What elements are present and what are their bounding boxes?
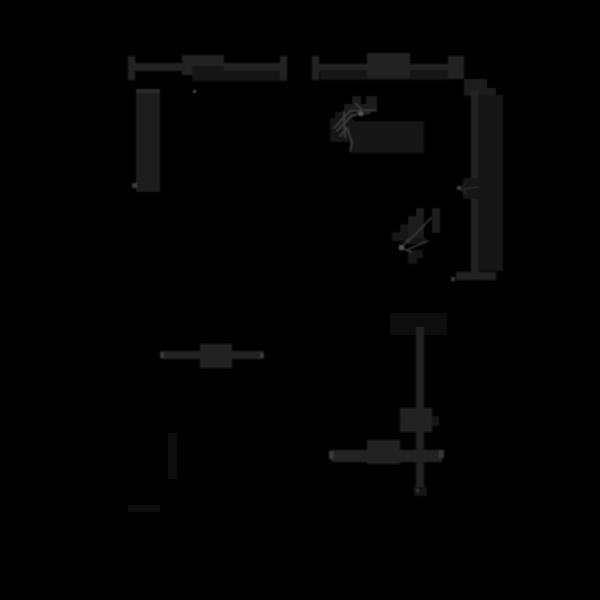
capacitor C1 left plate xyxy=(280,56,287,80)
LED D2 arrowhead dot xyxy=(399,245,404,250)
corner bend top-right xyxy=(448,56,464,79)
ghost wire left vertical xyxy=(168,433,177,479)
wire glow top-right xyxy=(320,70,448,80)
wire bottom-right stub xyxy=(456,272,496,280)
junction dot bottom-right xyxy=(451,277,455,281)
current arrow A3 head dot xyxy=(457,186,461,190)
wire R1 to C1 xyxy=(224,63,280,71)
current arrow A3 strokes xyxy=(459,184,478,193)
resistor R4 xyxy=(367,440,400,464)
wire middle-left xyxy=(162,351,263,359)
battery BT1 terminal dot xyxy=(132,183,137,188)
lamp L1 side marks xyxy=(432,416,439,426)
LED D1 arrows shadow xyxy=(352,96,361,104)
current arrow A3 shadow xyxy=(463,178,479,199)
LED D1 arrow strokes xyxy=(334,104,376,151)
resistor R2 xyxy=(367,53,410,78)
LED D1 arrowhead dot xyxy=(359,112,363,116)
wire top-left xyxy=(135,63,183,71)
glow right of vertical wire xyxy=(478,95,503,271)
wire right vertical xyxy=(471,90,479,276)
battery BT1 top edge xyxy=(136,89,160,93)
node label ghost xyxy=(390,313,447,335)
battery BT1 corner dot xyxy=(193,90,196,93)
resistor R3 xyxy=(200,344,232,368)
wire middle-left end dots xyxy=(160,352,164,358)
LED D2 shadow staircase xyxy=(416,208,424,238)
wire bottom horizontal end dots xyxy=(329,451,334,459)
wire bottom vertical xyxy=(416,327,424,492)
battery BT1 body xyxy=(136,89,160,192)
LED D1 glow xyxy=(350,121,424,153)
LED D2 arrow strokes xyxy=(401,218,431,252)
lamp L1 xyxy=(400,408,432,432)
wire top-right xyxy=(319,64,449,72)
wire glow under R1 xyxy=(192,66,287,81)
resistor R1 xyxy=(182,55,224,75)
capacitor C1 right plate xyxy=(312,56,319,80)
wire bottom vertical tip xyxy=(414,487,427,496)
ghost wire bottom-left xyxy=(128,505,160,512)
wire bottom horizontal xyxy=(331,450,442,462)
terminal tick T1 xyxy=(128,56,135,80)
